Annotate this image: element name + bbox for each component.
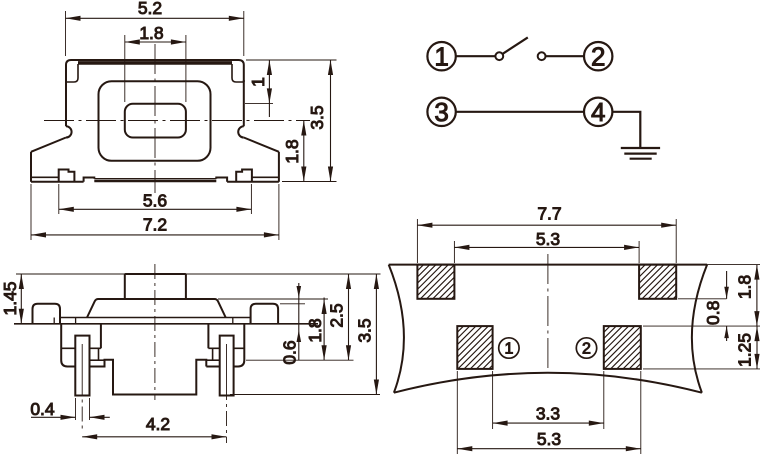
svg-text:3.5: 3.5	[307, 105, 327, 129]
svg-text:2: 2	[591, 42, 605, 72]
svg-text:3.3: 3.3	[536, 403, 560, 423]
svg-text:0.4: 0.4	[30, 399, 55, 419]
svg-text:1: 1	[434, 42, 448, 72]
svg-text:5.3: 5.3	[536, 229, 560, 249]
svg-text:4: 4	[591, 97, 605, 127]
svg-text:5.2: 5.2	[138, 0, 162, 18]
svg-text:0.8: 0.8	[703, 301, 723, 325]
svg-text:7.2: 7.2	[143, 215, 167, 235]
svg-text:1.8: 1.8	[139, 23, 163, 43]
svg-text:1: 1	[248, 77, 268, 87]
svg-text:1.8: 1.8	[305, 318, 325, 342]
svg-text:7.7: 7.7	[537, 204, 561, 224]
svg-text:1.8: 1.8	[735, 275, 755, 299]
svg-text:1.45: 1.45	[0, 281, 20, 315]
svg-text:1.25: 1.25	[735, 333, 755, 367]
svg-text:3: 3	[434, 97, 448, 127]
svg-text:0.6: 0.6	[280, 340, 300, 364]
svg-text:1.8: 1.8	[282, 139, 302, 163]
svg-text:4.2: 4.2	[146, 414, 170, 434]
svg-text:1: 1	[504, 341, 513, 358]
svg-text:2: 2	[582, 341, 591, 358]
svg-text:5.6: 5.6	[143, 190, 167, 210]
svg-text:2.5: 2.5	[327, 303, 347, 327]
svg-text:5.3: 5.3	[537, 429, 561, 449]
svg-text:3.5: 3.5	[355, 318, 375, 342]
